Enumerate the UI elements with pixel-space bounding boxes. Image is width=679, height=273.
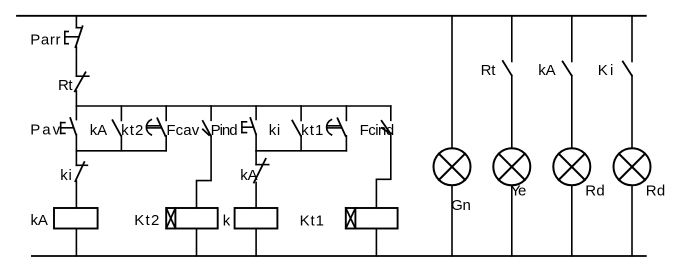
- svg-text:Fcind: Fcind: [360, 122, 395, 139]
- contact kA (NC): [254, 159, 269, 183]
- wire rail to Parr: [75, 16, 77, 28]
- wire Pav to left join: [75, 135, 77, 151]
- svg-text:k: k: [223, 213, 231, 230]
- pushbutton Pav (NO): [61, 118, 76, 135]
- contact Rt (NO): [503, 61, 512, 75]
- pushbutton Parr (NC): [65, 26, 83, 47]
- svg-text:Kt1: Kt1: [300, 213, 324, 230]
- svg-text:kA: kA: [31, 212, 48, 229]
- svg-text:kt1: kt1: [301, 122, 323, 139]
- wire kA coil to bottom rail: [75, 229, 77, 257]
- node branch bus: [76, 105, 390, 107]
- wire Pind to right join: [255, 134, 257, 151]
- svg-text:Rt: Rt: [58, 77, 73, 94]
- wire bus to Pav: [75, 106, 77, 120]
- svg-text:Ye: Ye: [511, 182, 527, 199]
- contact Rt (NC thermal): [75, 72, 89, 91]
- coil k: [235, 208, 278, 229]
- lamp Ye: [493, 148, 530, 185]
- wire left join to ki contact: [75, 151, 77, 166]
- pushbutton Pind (NO): [242, 118, 256, 134]
- node left join bus: [76, 150, 166, 152]
- wire bottom return rail: [32, 255, 646, 257]
- wire kt2 to left join: [165, 136, 167, 151]
- wire kA contact to k coil: [255, 182, 257, 208]
- wire bus to Pind: [255, 106, 257, 120]
- wire bus to ki contact: [300, 106, 302, 121]
- svg-text:Gn: Gn: [451, 197, 471, 214]
- svg-text:kA: kA: [538, 62, 555, 79]
- wire top supply rail: [17, 15, 646, 17]
- wire lamp Gn to bottom rail: [451, 185, 453, 256]
- contact ki (NC): [75, 162, 87, 181]
- wire lamp Rd to bottom rail: [571, 185, 573, 256]
- lamp Gn: [434, 148, 471, 185]
- contact kA (NO): [113, 120, 122, 136]
- wire Fcind down to jog: [376, 133, 390, 208]
- contact kt1 (time delay): [327, 118, 346, 136]
- wire ki to right join: [300, 136, 302, 151]
- wire Ki to lamp Rd2: [631, 76, 633, 149]
- wire Kt2 coil to bottom rail: [196, 229, 198, 257]
- svg-text:kA: kA: [240, 167, 257, 184]
- svg-text:ki: ki: [269, 122, 281, 139]
- limit switch Fcav (NO): [203, 121, 211, 136]
- svg-text:kt2: kt2: [121, 122, 143, 139]
- coil Kt2 (time relay): [166, 208, 218, 229]
- coil Kt1 (time relay): [346, 208, 398, 229]
- wire k coil to bottom rail: [255, 229, 257, 257]
- wire Rt to lamp Ye: [511, 75, 513, 148]
- svg-text:Kt2: Kt2: [134, 212, 159, 229]
- svg-text:Rt: Rt: [481, 62, 497, 79]
- contact ki (NO): [292, 121, 301, 136]
- wire Fcav down to jog: [197, 136, 212, 209]
- wire Parr to Rt: [75, 47, 77, 76]
- wire ki to kA coil: [75, 181, 77, 208]
- node right join bus: [256, 150, 346, 152]
- lamp Rd2: [614, 148, 651, 185]
- wire bus to kA contact: [120, 106, 122, 121]
- wire bus to Fcind: [390, 106, 392, 120]
- svg-text:kA: kA: [90, 122, 107, 139]
- wire rail to Rt contact: [511, 16, 513, 62]
- svg-text:Pav: Pav: [30, 122, 60, 139]
- wire bus to Fcav: [210, 106, 212, 120]
- svg-text:ki: ki: [60, 167, 72, 184]
- wire kA to left join: [120, 136, 122, 151]
- svg-text:Rd: Rd: [585, 182, 605, 199]
- svg-text:Pind: Pind: [211, 122, 238, 139]
- wire bus to kt1 contact: [345, 106, 347, 120]
- contact kA (NO): [563, 62, 572, 76]
- svg-text:Ki: Ki: [598, 62, 614, 79]
- wire kt1 to right join: [345, 136, 347, 151]
- contact Ki (NO): [623, 62, 632, 76]
- coil kA: [54, 208, 98, 229]
- wire Kt1 coil to bottom rail: [375, 229, 377, 257]
- wire kA to lamp Rd: [571, 76, 573, 149]
- lamp Rd: [553, 148, 590, 185]
- wire rail to lamp Gn: [451, 16, 453, 149]
- contact kt2 (time delay): [146, 118, 165, 136]
- wire Rt to node bus: [75, 91, 77, 106]
- svg-text:Parr: Parr: [30, 32, 60, 49]
- wire lamp Rd2 to bottom rail: [631, 185, 633, 256]
- limit switch Fcind (NO): [382, 121, 391, 133]
- wire lamp Ye to bottom rail: [511, 185, 513, 256]
- wire rail to kA contact: [571, 16, 573, 62]
- wire bus to kt2 contact: [165, 106, 167, 120]
- svg-text:Fcav: Fcav: [166, 122, 199, 139]
- wire rail to Ki contact: [631, 16, 633, 62]
- wire right join to kA contact: [255, 151, 257, 165]
- svg-text:Rd: Rd: [646, 182, 666, 199]
